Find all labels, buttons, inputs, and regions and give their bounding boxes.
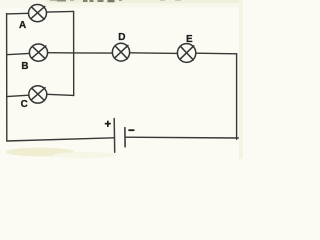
wire battery to bottom left: [7, 138, 114, 141]
label -: [128, 129, 134, 131]
wire bottom right to battery: [125, 136, 238, 139]
wire right rail: [236, 54, 238, 140]
battery BT1: [114, 119, 125, 153]
paper background: [0, 0, 243, 159]
lamp B: [29, 44, 47, 61]
wire lamp A to parallel rail: [47, 10, 74, 13]
lamp E: [177, 44, 195, 63]
wire left rail to lamp B: [7, 53, 30, 54]
label +: [105, 121, 111, 127]
lamp A: [29, 5, 47, 22]
svg-text:E: E: [186, 34, 193, 45]
svg-text:B: B: [21, 61, 28, 72]
wire lamp B to rail: [48, 52, 74, 54]
lamp D: [112, 43, 129, 61]
wire left rail to lamp C: [7, 95, 29, 96]
battery short plate (-): [124, 128, 126, 147]
svg-text:A: A: [19, 20, 26, 31]
wire lamp C to rail: [47, 94, 74, 95]
svg-text:C: C: [21, 99, 28, 110]
wire left rail: [6, 14, 8, 141]
battery long plate (+): [113, 119, 116, 153]
wire rail to lamp D: [74, 52, 113, 54]
svg-text:D: D: [118, 32, 125, 43]
lamp C: [29, 86, 47, 103]
wire top-left to lamp A: [7, 12, 29, 15]
wire lamp E to right rail: [196, 52, 237, 55]
wire parallel right rail: [73, 11, 75, 95]
cropped text remnants at top: [50, 0, 181, 2]
wire lamp D to lamp E: [130, 52, 178, 55]
